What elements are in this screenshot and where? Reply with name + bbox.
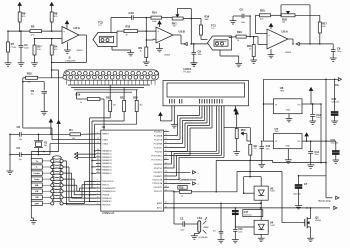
svg-text:PB6/MISO: PB6/MISO [102, 201, 112, 203]
svg-text:PA3/ADC3: PA3/ADC3 [102, 159, 111, 162]
svg-text:PB: PB [35, 191, 38, 193]
connector J2 dual row header [64, 70, 159, 80]
power arrow R1 pullup [49, 119, 52, 122]
svg-text:R1: R1 [69, 128, 73, 132]
svg-text:R11: R11 [247, 44, 252, 48]
button PB label box [31, 189, 42, 193]
svg-text:T-: T- [36, 167, 38, 169]
button OFF label box [31, 201, 42, 205]
svg-text:R21: R21 [106, 96, 111, 99]
svg-text:TL431: TL431 [270, 191, 275, 193]
power arrow buttons [51, 69, 53, 71]
wire LCD ctrl 2 [218, 106, 220, 154]
wire LCD contrast to R2 [249, 128, 251, 145]
ground op-amp U2:B [159, 43, 161, 49]
net arrow Bomba 12V [326, 197, 333, 199]
pin PC6/TOSC1 [164, 155, 169, 157]
svg-text:PA1/ADC1: PA1/ADC1 [102, 153, 111, 156]
svg-text:10k: 10k [282, 22, 285, 24]
svg-text:R12: R12 [126, 25, 131, 29]
op-amp U3:A [267, 29, 288, 49]
svg-text:VO: VO [297, 105, 300, 107]
pin bottom 16 [152, 75, 156, 79]
pin bottom 9 [110, 75, 114, 79]
svg-text:C8: C8 [198, 49, 202, 53]
ground U4 [258, 237, 265, 239]
svg-text:R17: R17 [322, 22, 327, 26]
svg-text:26: 26 [97, 171, 99, 173]
svg-text:LM358: LM358 [77, 50, 83, 52]
pin PA7/ADC7 [96, 172, 101, 174]
pin PC0/SCL [164, 131, 169, 133]
svg-text:PD3/INT1: PD3/INT1 [154, 176, 163, 178]
svg-text:PA7/ADC7: PA7/ADC7 [102, 172, 111, 175]
cascade wire R21 to MCU bus [109, 112, 111, 118]
svg-text:3: 3 [97, 186, 98, 188]
svg-text:19: 19 [165, 182, 167, 184]
svg-text:22p: 22p [19, 159, 22, 161]
svg-text:2: 2 [97, 183, 98, 185]
resistor R20 [135, 100, 138, 111]
supply ground bus wire [216, 159, 273, 161]
wire C17 bottom to U4 [234, 215, 236, 227]
ground C13 [309, 120, 316, 122]
svg-text:C6: C6 [337, 47, 341, 51]
switch OFF [42, 202, 50, 204]
svg-text:LCD1: LCD1 [184, 67, 192, 71]
svg-text:R7: R7 [11, 42, 15, 46]
svg-text:47u: 47u [213, 231, 216, 233]
ground TC1 [235, 62, 242, 64]
wire PD5 net arrow [169, 182, 191, 184]
resistor R1 [70, 133, 81, 136]
wire C5 to node [244, 15, 250, 17]
ground C15 [332, 159, 339, 161]
wire Sobe to MCU [63, 178, 74, 180]
svg-text:PC0/SCL: PC0/SCL [154, 131, 163, 133]
svg-text:100k: 100k [205, 19, 209, 21]
resistor R7 [7, 42, 10, 52]
wire U2:A output loop [78, 34, 86, 36]
pin AVCC [164, 207, 169, 209]
svg-text:PC2/TCK: PC2/TCK [154, 139, 163, 141]
svg-text:100n: 100n [337, 51, 341, 53]
svg-text:15: 15 [165, 166, 167, 168]
crystal X1 [34, 140, 43, 142]
pin PA4/ADC4 [96, 162, 101, 164]
ground TC2 [127, 52, 134, 54]
pin PA1/ADC1 [96, 153, 101, 155]
svg-text:PB5/MOSI: PB5/MOSI [102, 198, 112, 200]
svg-text:100n: 100n [238, 231, 242, 233]
ground R11 [250, 59, 257, 61]
switch PB [42, 190, 50, 192]
wire LS1 ground [198, 232, 200, 233]
resistor R8 [50, 12, 53, 22]
pin top 13 [137, 71, 141, 75]
svg-text:R15: R15 [27, 71, 32, 75]
svg-text:U3:B: U3:B [179, 30, 185, 34]
MCU left bus vertical 3 [94, 124, 96, 157]
svg-text:U7: U7 [275, 127, 279, 131]
ground U6 [288, 114, 290, 119]
bus line 4 below connector [77, 91, 133, 93]
ground R3 [31, 62, 38, 64]
svg-text:C9: C9 [31, 89, 35, 93]
wire LCD D3 [201, 106, 203, 118]
pin top 11 [125, 71, 129, 75]
svg-text:R9: R9 [139, 46, 143, 50]
pin PA6/ADC6 [96, 169, 101, 171]
wire ON to MCU [63, 196, 82, 198]
net arrow bottom right [334, 206, 337, 209]
svg-text:PA2/ADC2: PA2/ADC2 [102, 156, 111, 159]
svg-text:R13: R13 [237, 30, 242, 34]
wire AVCC line [169, 207, 330, 209]
pin PD1/TXD [164, 167, 169, 169]
svg-text:IRFZ44: IRFZ44 [315, 220, 321, 222]
op-amp U2:A [62, 27, 79, 44]
resistor R3 [33, 45, 36, 55]
cascade wire R22 to MCU bus [123, 112, 125, 121]
svg-text:100n: 100n [181, 230, 185, 232]
LCD pin ground drop [173, 106, 175, 125]
wire bus to R19 [76, 92, 78, 99]
pin top 4 [84, 71, 88, 75]
cascade wire R20 to MCU bus [136, 112, 138, 125]
wire C2 to XTAL1 node [23, 127, 29, 129]
potentiometer RV3 [235, 129, 238, 139]
button common rail [31, 151, 58, 153]
ground C5 [230, 20, 237, 22]
pin bottom 13 [134, 75, 138, 79]
svg-text:1k: 1k [80, 102, 82, 104]
svg-text:R20: R20 [133, 96, 138, 99]
svg-text:PC6/TOSC1: PC6/TOSC1 [151, 155, 162, 157]
svg-text:9: 9 [97, 132, 98, 134]
supply top rail wire [264, 78, 339, 80]
svg-text:C10: C10 [129, 11, 135, 15]
wire 5V rail [313, 103, 321, 105]
ground R9 [143, 61, 150, 63]
wire LCD ctrl 4 [223, 106, 225, 158]
wire LCD ctrl 1 [216, 106, 218, 152]
ground left rail [7, 170, 14, 172]
svg-text:7805: 7805 [275, 131, 279, 133]
power arrow U7 5VA [305, 133, 308, 136]
ground RV3 [233, 151, 240, 153]
svg-text:SOUNDER: SOUNDER [199, 237, 209, 239]
LCD power arrow left [171, 106, 173, 121]
wire LCD D5 [206, 106, 208, 123]
pin bottom 14 [140, 75, 144, 79]
svg-text:R22: R22 [120, 96, 125, 99]
pin XTAL2 [96, 143, 101, 145]
svg-text:24: 24 [165, 138, 167, 140]
wire R18 branch up [236, 172, 238, 192]
svg-text:PA6/ADC6: PA6/ADC6 [102, 169, 111, 172]
pin PD6/ICP1 [164, 186, 169, 188]
svg-text:U2:A: U2:A [74, 26, 80, 30]
svg-text:PC1/SDA: PC1/SDA [154, 134, 163, 137]
svg-text:PB7/SCK: PB7/SCK [102, 205, 111, 207]
svg-text:PB3/AIN1/OC0: PB3/AIN1/OC0 [102, 190, 116, 193]
MCU left bus vertical 1 [89, 118, 91, 201]
resistor R16 [200, 25, 203, 35]
pin PA3/ADC3 [96, 159, 101, 161]
svg-text:VO: VO [297, 141, 300, 143]
svg-text:10u: 10u [31, 93, 34, 95]
ground C18 [331, 120, 338, 122]
pin PB5/MOSI [96, 197, 101, 199]
svg-text:5: 5 [97, 193, 98, 195]
svg-text:PC7/TOSC2: PC7/TOSC2 [151, 159, 162, 161]
pin bottom 3 [75, 75, 79, 79]
svg-text:HY-1602: HY-1602 [184, 72, 191, 74]
svg-text:R10: R10 [260, 9, 265, 13]
switch Sobe [42, 178, 50, 180]
svg-text:R6: R6 [22, 12, 26, 16]
svg-text:22p: 22p [19, 139, 22, 141]
LCD module outline [163, 81, 249, 106]
pin top 8 [107, 71, 111, 75]
svg-text:29: 29 [165, 158, 167, 160]
svg-text:PC5/TDI: PC5/TDI [155, 151, 163, 153]
capacitor C12 [260, 146, 265, 148]
pin PA2/ADC2 [96, 156, 101, 158]
capacitor C11 [233, 229, 237, 231]
pin top 2 [72, 71, 76, 75]
svg-text:C5: C5 [240, 8, 244, 12]
wire left rail crystal [9, 134, 11, 171]
resistor R18 [178, 186, 187, 190]
resistor R9 [145, 47, 148, 58]
pin PB0/T0/XCK [96, 180, 101, 182]
ground C11 [232, 239, 239, 241]
LCD pins mid group [179, 99, 181, 104]
ground C16 [218, 239, 225, 241]
svg-text:12: 12 [97, 138, 99, 140]
svg-text:1: 1 [97, 180, 98, 182]
switch T- [42, 166, 50, 168]
ground C14 [307, 164, 314, 166]
svg-text:U3:A: U3:A [282, 30, 288, 34]
svg-text:Q1: Q1 [315, 216, 319, 220]
pin top 9 [113, 71, 117, 75]
pin bottom 1 [63, 75, 67, 79]
svg-text:RESET: RESET [102, 134, 109, 136]
svg-text:ATMEGA16: ATMEGA16 [102, 212, 115, 215]
button Cooler label box [31, 171, 42, 175]
power rail R8 [50, 3, 53, 6]
svg-text:23: 23 [165, 134, 167, 136]
svg-text:4k7: 4k7 [113, 105, 116, 107]
ground button rail [31, 217, 33, 219]
wire U3:A output [288, 38, 293, 40]
net arrow T2 [296, 42, 299, 45]
ground Q1 [307, 237, 314, 239]
svg-text:Bomba temp: Bomba temp [319, 200, 332, 203]
wire AREF line [169, 202, 261, 204]
svg-text:20: 20 [165, 186, 167, 188]
LCD power arrow VDD [235, 106, 237, 115]
wire rail to U5 [249, 160, 251, 176]
svg-text:100n: 100n [266, 148, 270, 150]
svg-text:22: 22 [165, 130, 167, 132]
power op-amp U3:A [269, 24, 272, 27]
LCD display window [167, 83, 245, 97]
pin PD3/INT1 [164, 175, 169, 177]
resistor R11 [252, 45, 255, 57]
resistor R5 [30, 30, 42, 33]
svg-text:R18: R18 [179, 188, 184, 190]
rail to lower supply [325, 79, 327, 160]
wire Cooler to MCU [63, 172, 72, 174]
svg-text:18: 18 [165, 178, 167, 180]
svg-text:PD5/OC1A: PD5/OC1A [153, 182, 163, 185]
svg-text:7: 7 [97, 200, 98, 202]
wire inv input [35, 38, 63, 40]
pin bottom 5 [87, 75, 91, 79]
svg-text:TC2: TC2 [98, 21, 103, 25]
MCU left bus taps [90, 180, 97, 182]
wire bus drop R22 [123, 87, 125, 100]
svg-text:U1: U1 [102, 125, 106, 129]
pin bottom 11 [122, 75, 126, 79]
LCD pins left group [169, 99, 171, 104]
pin PC2/TCK [164, 139, 169, 141]
svg-text:COMA-DISP: COMA-DISP [65, 60, 76, 63]
pin PC7/TOSC2 [164, 159, 169, 161]
pin bottom 8 [104, 75, 108, 79]
net arrow T1 [184, 42, 187, 45]
pin PC1/SDA [164, 135, 169, 137]
resistor R10 [260, 14, 271, 17]
ground R7 [5, 62, 12, 64]
svg-text:1k: 1k [181, 196, 183, 198]
wire LCD D7 [211, 106, 213, 128]
svg-text:PB4/SS: PB4/SS [102, 195, 110, 197]
svg-text:PD4/OC1B: PD4/OC1B [153, 180, 163, 182]
pin PB0/T1 [96, 184, 101, 186]
resistor R17 [318, 22, 321, 33]
wire to Q1 gate riser [281, 172, 283, 223]
svg-text:28: 28 [97, 165, 99, 167]
svg-text:27: 27 [97, 168, 99, 170]
resistor R4 [50, 45, 53, 55]
feedback loop wire U3:A [280, 5, 282, 16]
capacitor C4 [19, 44, 24, 46]
switch ON [42, 196, 50, 198]
svg-text:100n: 100n [24, 47, 30, 49]
pin PB3/AIN1/OC0 [96, 190, 101, 192]
net arrow keys B [75, 156, 78, 159]
svg-text:21: 21 [165, 189, 167, 191]
svg-text:6: 6 [97, 196, 98, 198]
potentiometer RV1 [172, 17, 183, 20]
svg-text:TL431: TL431 [270, 225, 275, 227]
wire TC2 bottom to ground [111, 47, 113, 51]
svg-text:PA0/ADC0: PA0/ADC0 [102, 149, 112, 152]
svg-text:Comando forno: Comando forno [179, 179, 196, 181]
svg-text:XTAL1: XTAL1 [102, 139, 108, 142]
pin PA0/ADC0 [96, 150, 101, 152]
svg-text:8: 8 [97, 203, 98, 205]
U6 output wire [302, 103, 313, 105]
resistor R14 [151, 16, 162, 19]
pin PD0/RXD [164, 163, 169, 165]
ground above LCD [191, 62, 198, 64]
pin PB4/SS [96, 194, 101, 196]
svg-text:100n: 100n [198, 54, 202, 56]
svg-text:U4: U4 [270, 220, 274, 224]
switch BA [42, 184, 50, 186]
svg-text:LM358: LM358 [285, 52, 291, 54]
power +5V rail top-left [18, 3, 21, 6]
svg-text:Cooler: Cooler [33, 173, 40, 175]
wire T- to MCU [63, 166, 69, 168]
svg-text:GND: GND [286, 110, 291, 112]
wire LCD ctrl 3 [221, 106, 223, 156]
svg-text:28: 28 [165, 154, 167, 156]
svg-text:C1: C1 [180, 216, 184, 220]
power arrow RV3 [235, 111, 238, 114]
svg-text:Sobe: Sobe [34, 179, 40, 181]
svg-text:AREF: AREF [157, 202, 163, 205]
pin top 7 [101, 71, 105, 75]
wire noninv input [8, 30, 30, 32]
svg-text:100n: 100n [241, 22, 245, 24]
wire R15 left rail [22, 78, 24, 128]
svg-text:1000u/16v: 1000u/16v [293, 193, 301, 195]
power arrow 5V U6 [309, 88, 312, 91]
svg-text:100n: 100n [316, 117, 320, 119]
supply left rail [263, 79, 265, 141]
svg-text:PB0/T0/XCK: PB0/T0/XCK [102, 181, 114, 183]
potentiometer RV2 [281, 14, 295, 17]
MCU left bus vertical 2 [91, 121, 93, 188]
svg-text:-: - [64, 38, 65, 42]
pin AREF [164, 202, 169, 204]
power op-amp U2:B [158, 21, 161, 24]
connector pin stubs [66, 80, 68, 85]
power op-amp U2:A [65, 21, 68, 24]
pin top 12 [131, 71, 135, 75]
capacitor C13 [310, 114, 315, 116]
svg-text:-: - [269, 42, 270, 46]
wire TC1 bottom ground [219, 50, 221, 56]
svg-text:27: 27 [165, 150, 167, 152]
resistor R15 [26, 76, 38, 79]
button T- label box [31, 165, 42, 169]
svg-text:13: 13 [97, 142, 99, 144]
svg-text:AVCC: AVCC [157, 207, 163, 210]
wire U3:A plus input [258, 44, 267, 46]
pin PC5/TDI [164, 151, 169, 153]
pin bottom 15 [146, 75, 150, 79]
svg-text:R14: R14 [152, 11, 157, 15]
svg-text:PD0/RXD: PD0/RXD [154, 164, 163, 166]
wire TC2 to C10 [110, 18, 112, 33]
wire C7 top to rail [299, 175, 327, 177]
svg-text:4: 4 [97, 190, 98, 192]
pin bottom 10 [116, 75, 120, 79]
wire Q1 drain [310, 208, 312, 215]
pin PC4/TDO [164, 147, 169, 149]
svg-text:30: 30 [165, 206, 167, 208]
net arrow 9V input [338, 78, 341, 81]
pin RESET [96, 133, 101, 135]
